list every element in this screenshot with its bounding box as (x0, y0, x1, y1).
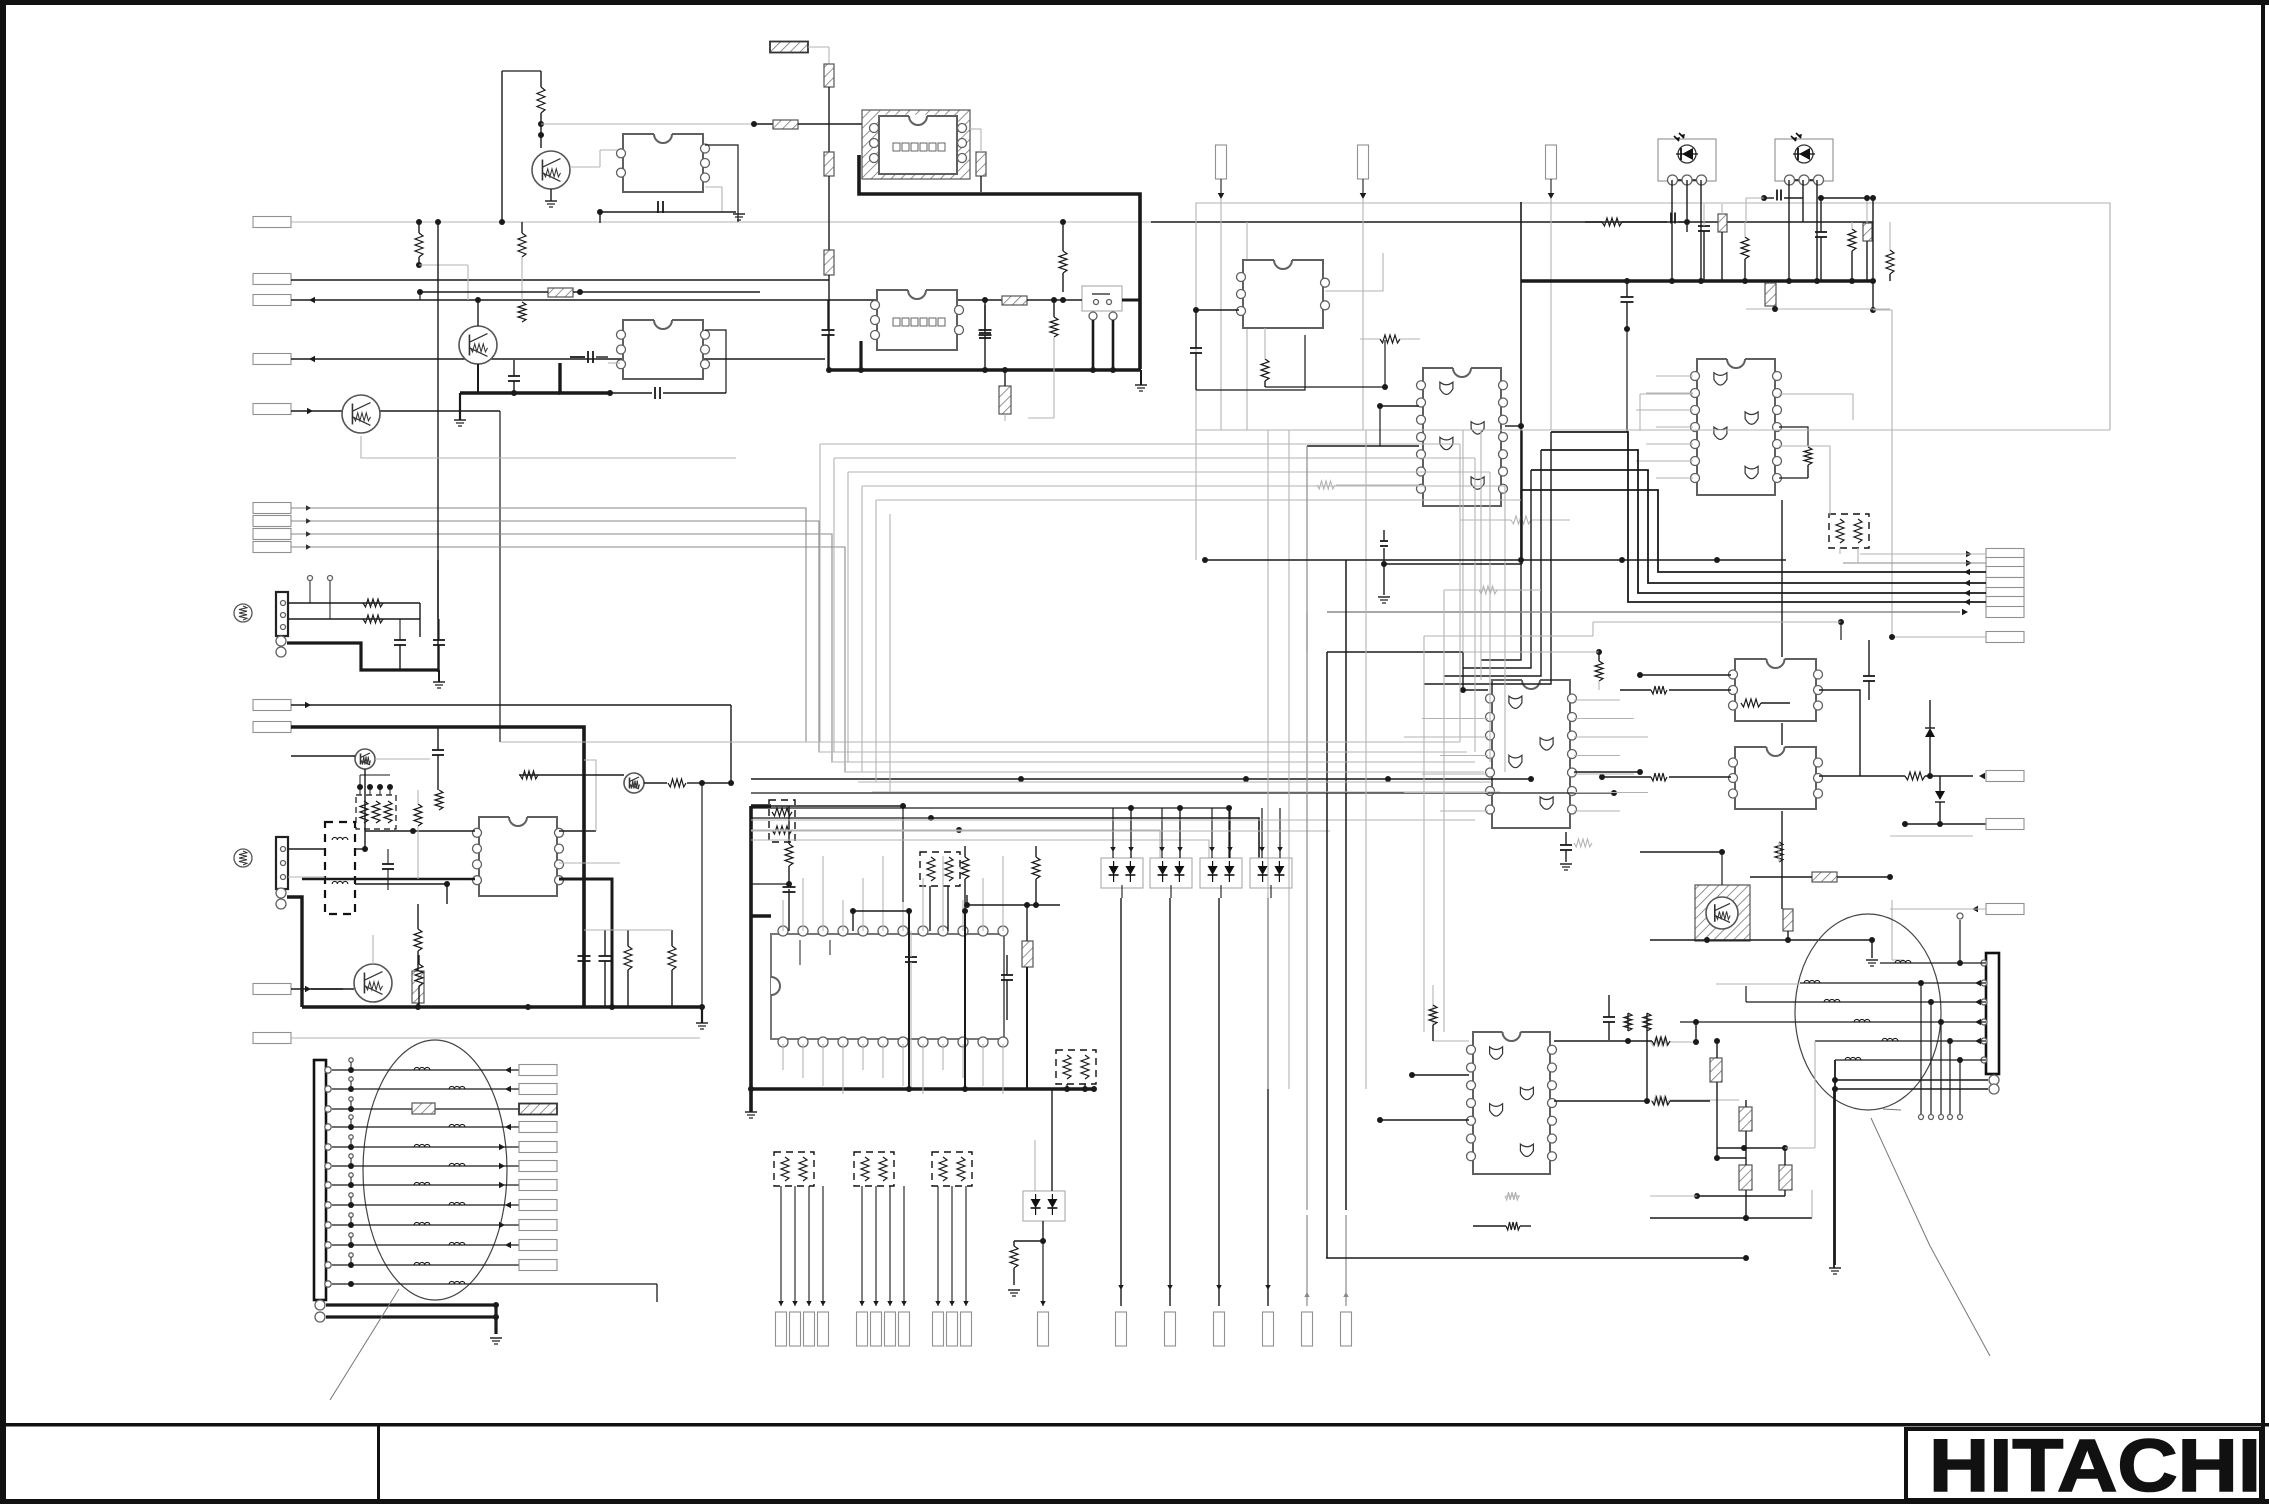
op-amp U3 (617, 320, 710, 379)
capacitor C1 row (597, 201, 736, 223)
CN R wire r4 (1680, 1019, 1986, 1026)
gray mesh row y742 (500, 741, 1460, 743)
wire U7 in1 (1460, 652, 1488, 693)
resistor R34 vertical (435, 790, 443, 810)
wire net-H y989 with arrow (291, 986, 343, 993)
wire stub row 824 (1902, 821, 1986, 827)
connector stub CN L7 (519, 1180, 557, 1191)
wire y1148 (1717, 1145, 1815, 1151)
wire DM1 top (1110, 808, 1134, 858)
wire U8 gray in (1433, 985, 1469, 1041)
wire U6 in gray (1636, 376, 1693, 478)
wire y820 gray long (751, 819, 1475, 821)
resistor R53 vertical (1595, 652, 1603, 690)
connector stub CN r1 (1986, 549, 2024, 560)
connector stub CN L3 hatched (519, 1104, 557, 1115)
wire net y124 gray (541, 123, 754, 125)
small circles grid (308, 576, 333, 620)
resistor R36 hatched vert (412, 971, 424, 1007)
capacitor C22 (578, 930, 591, 1007)
transistor Q3 (342, 395, 380, 433)
connector stub CN bv5 (857, 1312, 868, 1346)
resistor R51 vertical (1624, 1013, 1632, 1031)
relay RL1 hatched box (862, 110, 970, 179)
resistor R54 (1574, 839, 1592, 847)
wire Q6 up (372, 935, 374, 964)
CN R wire r1 (1880, 913, 1986, 966)
wire PC1 pins down (1669, 180, 1704, 284)
capacitor C11 (1761, 190, 1803, 202)
resistor R33 vertical (414, 790, 422, 879)
wire net-A black bus y222 (1151, 221, 1873, 223)
resistor R6 hatched vertical (824, 152, 834, 176)
resistor R46 hatched (1710, 1038, 1722, 1161)
wire x829 down (828, 87, 830, 152)
wire CN bv8 up (901, 1186, 907, 1306)
wire CN bv5 up (859, 1186, 865, 1306)
ground U1 (733, 214, 745, 220)
wire top pins up (783, 856, 1003, 931)
wire y831 gray long (751, 830, 1330, 832)
connector stub CN bv8 (899, 1312, 910, 1346)
capacitor C17 (1001, 955, 1013, 1020)
wire sw in (1027, 297, 1082, 303)
capacitor C13 (1621, 278, 1634, 432)
vertical mesh wire x1268 (1267, 430, 1269, 1089)
wire coil out (355, 881, 450, 904)
ground y1007 (696, 1007, 708, 1029)
wire y793 long (751, 790, 1617, 796)
sensor connector CN s2 (276, 837, 288, 889)
connector stub CN in 9 (253, 542, 291, 553)
wire r3 (1481, 490, 1986, 660)
wire x702 drop (699, 783, 705, 1010)
connector stub CN bv12 (1038, 1312, 1049, 1346)
pin post 10 (349, 1233, 353, 1245)
wire y652 (1327, 649, 1602, 655)
resistor R38 vertical (624, 930, 632, 1007)
connector stub CN bv11 (961, 1312, 972, 1346)
resistor R25 (1741, 699, 1790, 707)
wire y1158 (1717, 1157, 1746, 1159)
HITACHI logo text (1929, 1424, 2261, 1507)
title block bottom rule (0, 1499, 2269, 1504)
connector stub CN in 13 (253, 1033, 291, 1044)
resistor pack RP4 dashed (774, 1152, 814, 1186)
gray mesh row y458 (834, 457, 1475, 459)
wire DM4 down (1270, 885, 1272, 898)
wire DM2 top (1159, 808, 1183, 858)
wire DM3 top (1209, 808, 1233, 858)
gray mesh row y752 (819, 751, 1467, 753)
wire y808 a (751, 805, 1232, 858)
wire U12 out1 (559, 760, 596, 831)
resistor R28 vertical (1032, 846, 1040, 908)
resistor R43 vertical (1775, 842, 1783, 862)
capacitor C2 (822, 300, 835, 370)
connector stub CN bv13 (1116, 1312, 1127, 1346)
capacitor C3 (979, 305, 992, 370)
resistor R16 vertical (1261, 328, 1269, 387)
vertical wire x502 (501, 71, 503, 222)
pin post 9 (349, 1213, 353, 1225)
connector stub CN in 12 (253, 984, 291, 995)
wire gray fan 3 (291, 531, 1460, 762)
wire DM4 drop (1265, 898, 1271, 1306)
right connector bar CN R (1986, 953, 1999, 1074)
wire net-D y359 with arrow (291, 356, 825, 363)
wire U10 out (1819, 772, 1985, 780)
wire U3 right net (705, 330, 726, 393)
connector stub CN bv7 (885, 1312, 896, 1346)
wire R42 net (1750, 874, 1893, 880)
junction y622 (1593, 619, 1844, 640)
wire s1 verticals (420, 560, 438, 637)
connector stub CN t2 (1358, 145, 1369, 199)
resistor R2 hatched (773, 120, 798, 129)
ground Q7 (1866, 940, 1878, 966)
border frame top (0, 0, 2269, 5)
CN R verticals (1919, 983, 1963, 1120)
junction bus x420 (416, 219, 441, 225)
junction R3 (416, 262, 468, 300)
connector stub CN r11 (1986, 904, 2024, 915)
resistor R18 hatched small (1718, 204, 1727, 281)
thick drop x1835 (1829, 1060, 1841, 1274)
sensor connector CN s1 (276, 592, 288, 636)
wire U8 out right (1554, 1097, 1710, 1105)
capacitor C8 (1190, 310, 1305, 390)
wire r7 (1327, 609, 1968, 616)
wire Q7 row y940 (1650, 937, 1875, 943)
connector stub CN bv4 (818, 1312, 829, 1346)
resistor R12 hatched vertical (999, 367, 1011, 421)
wire x829 down 3 (828, 275, 830, 370)
resistor R9 vertical (1059, 219, 1067, 292)
connector stub CN bv15 (1214, 1312, 1225, 1346)
connector stub CN L11 (519, 1260, 557, 1271)
CN R pins (1981, 960, 1987, 1063)
diode module DM1 (1101, 858, 1143, 888)
connector stub CN bv18 (1341, 1312, 1352, 1346)
connector stub CN L9 (519, 1220, 557, 1231)
resistor R22 vertical (1886, 222, 1894, 281)
wire into U5 A (1306, 446, 1308, 612)
vertical mesh wire x1384 (1383, 548, 1385, 595)
wire U5 in1 (1377, 403, 1419, 409)
connector stub CN bv3 (804, 1312, 815, 1346)
harness bottom join (490, 1302, 502, 1344)
wire net y124 black (751, 121, 773, 127)
connector stub CN r2 (1986, 558, 2024, 569)
capacitor C15 (751, 884, 796, 931)
wire U8 in left2 (1377, 1117, 1469, 1123)
relay RL1 inner IC (879, 116, 957, 174)
capacitor C25 (1560, 832, 1572, 870)
junction bus x502 (499, 219, 505, 225)
vertical mesh wire x1444 (1443, 590, 1445, 1032)
connector bar CN L (314, 1060, 326, 1300)
wire y779 long (751, 776, 1534, 782)
wire U10 in (1599, 773, 1731, 781)
wire Q4 net (291, 756, 430, 759)
wire CN t1 gray drop (1220, 199, 1222, 430)
wire Q2 collector (475, 297, 481, 326)
wire net-F y705 with arrow (291, 702, 731, 780)
transistor Q1 (532, 151, 570, 189)
switch wires (1090, 320, 1116, 373)
wire DM4 top (1259, 808, 1283, 858)
capacitor C9 (1671, 213, 1690, 233)
wire net-I y1038 gray (291, 1037, 700, 1039)
pin post 11 (349, 1253, 353, 1265)
CN R big circles (1989, 1075, 1999, 1094)
gray mesh row y782 (858, 781, 1492, 783)
wire U9 mid (1620, 686, 1731, 694)
connector stub CN in 7 (253, 516, 291, 527)
wire net-C y300 with arrow (291, 297, 1002, 304)
wire PC2 pins down (1786, 180, 1820, 284)
wire Q5 row (519, 771, 734, 787)
wire CN bv11 up (963, 1186, 969, 1306)
wire s2 row2 (288, 876, 325, 878)
right ellipse harness (1795, 914, 1941, 1110)
capacitor C16 (905, 931, 917, 1089)
wire gray y309 (1746, 306, 1890, 312)
wire y818 (751, 818, 1259, 858)
wire b12 up (1040, 1241, 1046, 1306)
resistor R48 hatched (1739, 1160, 1752, 1221)
wire r8 (1889, 634, 1986, 640)
connector stub CN in 2 (253, 274, 291, 285)
gray row y590 (1444, 586, 1541, 594)
gray routing outline (1196, 203, 2110, 560)
thick wire Q2 bus (460, 391, 560, 394)
connector stub CN r10 (1986, 819, 2024, 830)
gray mesh row y762 (832, 761, 1475, 763)
wire CN bv9 up (935, 1186, 941, 1306)
op-amp U12 (473, 817, 564, 896)
transistor Q4 (355, 749, 375, 769)
capacitor C24 (1603, 995, 1615, 1040)
wire r11 gray (1890, 906, 1986, 913)
pin post 7 (349, 1173, 353, 1185)
wire r1 (1860, 551, 1986, 558)
CN R wire r2 (1800, 980, 1986, 987)
thick wire U2 bottom (859, 341, 862, 370)
wire U1 top right (705, 145, 738, 222)
resistor pack RP5 dashed (854, 1152, 894, 1186)
timer IC U2 label (893, 318, 945, 326)
border frame right (2261, 0, 2265, 1504)
wire stub row 836 (1890, 835, 1973, 837)
connector stub CN r9 (1986, 771, 2024, 782)
switch SW1 (1082, 286, 1122, 320)
pin post 8 (349, 1193, 353, 1205)
resistor R5 hatched vertical (824, 64, 834, 87)
thick wire U3 bottom (560, 363, 613, 396)
capacitor C6 below U3 (610, 387, 726, 399)
hatched resistor R14 (548, 288, 573, 297)
HITACHI logo box (1906, 1429, 2261, 1500)
connector stub CN L8 (519, 1200, 557, 1211)
wire rp7 down (1064, 1084, 1088, 1092)
vertical mesh wire x1366 (1365, 430, 1367, 1089)
wire x1384 net (1378, 430, 1522, 603)
harness wire 3 (332, 1106, 519, 1112)
resistor pack RP3 dashed (769, 800, 795, 842)
gray col x2110 (2109, 203, 2111, 430)
wire y292 (417, 289, 760, 300)
wire U4 in black (1193, 307, 1239, 313)
wire pc2 gray y198 (1746, 198, 1764, 222)
pin post 1 (349, 1058, 353, 1070)
CN R wire r3 (1746, 986, 1986, 1005)
wire Q2 emitter (477, 364, 479, 393)
resistor R42 hatched h (1812, 872, 1837, 882)
gray mesh row y444 (820, 443, 1460, 445)
capacitor C14 (1863, 640, 1875, 700)
diode module DM4 (1250, 858, 1292, 888)
wire net-E2 y409 right of Q3 (380, 411, 500, 742)
resistor R49 hatched (1779, 1148, 1792, 1196)
resistor R20 vertical (1848, 222, 1856, 281)
wire CN t3 gray drop (1550, 199, 1552, 430)
CN L lower circles (315, 1300, 325, 1322)
connector stub CN in 4 (253, 354, 291, 365)
CN R wire r6 (1835, 1057, 1986, 1063)
capacitor C4 (979, 297, 991, 338)
connector stub CN in 10 (253, 700, 291, 711)
pin post 4 (349, 1115, 353, 1127)
wire y612 bend (1306, 612, 1308, 652)
wire DM1 down (1121, 885, 1123, 898)
wire gray fan 1 (291, 505, 1460, 742)
thick wire harness bottom2 (326, 1315, 496, 1318)
vertical mesh wire x1463 (1462, 430, 1464, 652)
wire U5 in2 (1307, 445, 1419, 447)
wire U12 out2 (559, 862, 620, 864)
wire net-G y727 thick (291, 727, 584, 1007)
vertical x1873 (1870, 198, 1876, 313)
connector stub CN r3 (1986, 567, 2024, 578)
resistor R50 vertical (1429, 1005, 1437, 1041)
harness wire 2 (332, 1086, 519, 1093)
wire r4 (1463, 470, 1986, 668)
wire U5 out right (1505, 423, 1524, 429)
hatched resistor R40 (412, 1103, 435, 1114)
capacitor C5 (570, 351, 608, 363)
border frame left (0, 0, 6, 1504)
wire gray fan 2 (291, 518, 1460, 752)
harness wire 10 (332, 1242, 519, 1249)
harness wire 6 (332, 1163, 519, 1170)
ground bus y370 (1135, 370, 1147, 391)
sensor CN s2 circles (276, 888, 286, 909)
wire gray fan 4 (291, 544, 1460, 772)
resistor R45 gray (1651, 1096, 1739, 1104)
wire U8 out top (1554, 1037, 1670, 1045)
wire s2 row1 (288, 769, 368, 852)
thick bus y370 (826, 367, 1141, 373)
wire x731 drop (730, 780, 732, 783)
wire CN bv1 up (778, 1186, 784, 1306)
thick bus y560 (1202, 557, 1786, 563)
resistor pack RP2 dashed (920, 852, 960, 886)
diode module DM3 (1200, 858, 1242, 888)
capacitor C23 (599, 930, 612, 1007)
dots above RP8 (357, 775, 393, 795)
connector stub CN L5 (519, 1142, 557, 1153)
gray wire into ellipse (1716, 983, 1800, 985)
wire x1834 drop2 (1833, 1089, 1835, 1268)
wire U9/U10 link (1819, 690, 1860, 776)
wire net y437 gray (361, 436, 736, 458)
timer IC U2 (871, 290, 964, 350)
capacitor C26 (1380, 530, 1388, 546)
connector stub CN bv16 (1263, 1312, 1274, 1346)
pin post 3 (349, 1097, 353, 1109)
wire r5 (1444, 450, 1986, 676)
wire y1218 (1650, 1190, 1812, 1221)
connector stub CN L4 (519, 1122, 557, 1133)
connector stub CN bv17 (1302, 1312, 1313, 1346)
U11 bottom pins (778, 1037, 1008, 1047)
relay RL1 pins (870, 124, 967, 163)
wire U7 right pins gray (1574, 700, 1648, 811)
junction cluster (850, 908, 912, 1092)
gray mesh row y772 (845, 771, 1484, 773)
harness wire 8 (332, 1202, 519, 1209)
gray row y636 (1424, 622, 1593, 636)
thick wire relay1 bottom (859, 155, 1140, 369)
harness wire 12 (332, 1281, 657, 1287)
leader line right (1871, 1109, 1990, 1356)
transistor Q6 (354, 964, 392, 1002)
resistor R29 vertical (1008, 1241, 1020, 1296)
logic IC U8 (1467, 1032, 1557, 1174)
wire net-E y409 with arrow (291, 408, 343, 415)
title block divider (377, 1423, 380, 1504)
gray routing inner (1246, 222, 1248, 430)
resistor R15 (1360, 335, 1420, 343)
microcontroller U11 (771, 934, 1004, 1039)
wire x965 v (962, 908, 968, 1092)
connector stub CN L10 (519, 1240, 557, 1251)
title block top rule (0, 1423, 2269, 1427)
wire U7 left pins gray (1404, 719, 1488, 812)
wire to relay1 (798, 123, 862, 125)
junction bus marks (1742, 278, 1855, 284)
connector stub CN L6 (519, 1161, 557, 1172)
gray mesh row y430 (1196, 429, 2110, 431)
sensor CN s1 circles (276, 636, 286, 657)
wire U4 right (1325, 253, 1383, 291)
wire U1 out (705, 187, 722, 212)
resistor R13 vertical (518, 302, 526, 322)
vertical x1521 (1520, 202, 1522, 560)
op-amp U9 (1729, 659, 1823, 721)
resistor R37 vertical (415, 955, 423, 1007)
connector stub CN L2 (519, 1084, 557, 1095)
ground Q1 (545, 189, 557, 207)
resistor R10 hatched (1002, 296, 1027, 305)
wire DM3 drop (1216, 898, 1222, 1306)
wire y1196 (1650, 1193, 1785, 1199)
connector stub CN bv14 (1165, 1312, 1176, 1346)
pin post 2 (349, 1077, 353, 1089)
vertical mesh wire x1346 (1345, 560, 1347, 1210)
